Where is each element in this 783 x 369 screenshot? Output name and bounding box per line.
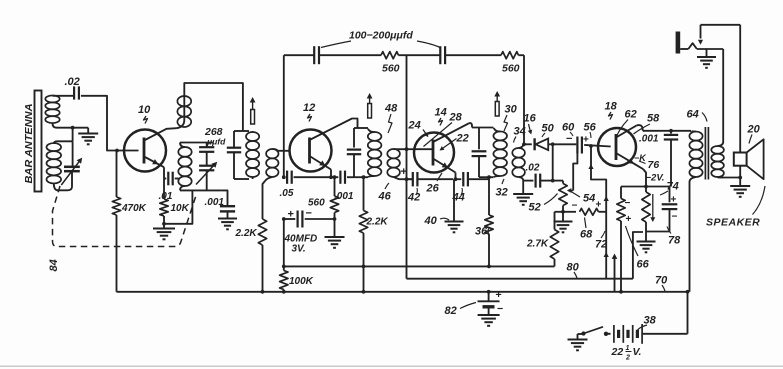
junction .05 node <box>282 175 286 179</box>
svg-text:46: 46 <box>378 191 392 203</box>
label 10K <box>171 203 190 214</box>
label 470K <box>121 203 147 214</box>
resistor 560 (emitter) <box>330 177 338 219</box>
ground phone jack <box>697 49 716 68</box>
svg-text:26: 26 <box>426 183 440 195</box>
resistor 470K <box>112 151 120 292</box>
IF1 primary winding <box>246 131 259 179</box>
wire jack to transformer <box>722 49 724 142</box>
label 2.7K <box>526 239 549 250</box>
resistor 74 <box>642 187 656 232</box>
svg-text:2: 2 <box>625 355 630 362</box>
label 268 uufd <box>204 126 226 147</box>
output transformer 64 core <box>705 127 708 180</box>
junction rail 100K <box>282 290 286 294</box>
label 560 (right rail) <box>502 63 520 75</box>
IF3 tuning slug <box>494 91 500 116</box>
label -2V. <box>646 173 665 184</box>
label 28 <box>424 112 463 147</box>
svg-text:48: 48 <box>384 103 398 115</box>
label 66 <box>626 226 650 271</box>
wire top rail drop right <box>523 55 525 144</box>
label 2.2K (IF2) <box>366 217 389 228</box>
battery 82 <box>478 292 500 315</box>
junction rail266 2.2K <box>362 265 366 269</box>
antenna coil L1 primary winding <box>45 95 59 123</box>
svg-text:2.7K: 2.7K <box>526 239 549 250</box>
svg-text:+: + <box>496 289 502 301</box>
svg-text:42: 42 <box>407 192 420 204</box>
wire osc tank bottom to C .001 <box>222 190 228 205</box>
label 20 <box>747 124 761 144</box>
ground 10K/emitter <box>153 224 175 240</box>
wire antenna coil top to C .02 <box>53 95 74 97</box>
junction IF3 sec top <box>522 142 526 146</box>
svg-text:18: 18 <box>605 101 618 113</box>
label 58 <box>634 113 661 135</box>
svg-text:84: 84 <box>48 259 60 271</box>
svg-text:.001: .001 <box>205 197 225 208</box>
base 18 feedback wire <box>588 144 608 279</box>
label 12 <box>303 102 315 122</box>
capacitor .02 (det) <box>536 174 553 188</box>
capacitor .001 (output) <box>664 129 678 149</box>
svg-text:560: 560 <box>382 63 400 75</box>
wiper feed <box>573 146 577 191</box>
ground speaker <box>730 186 750 197</box>
svg-text:.02: .02 <box>65 76 80 88</box>
svg-text:+: + <box>583 135 589 146</box>
antenna coil L1 secondary winding <box>47 128 73 191</box>
phone jack contact <box>680 43 723 49</box>
svg-text:14: 14 <box>435 107 447 119</box>
label 560 (left rail) <box>382 63 400 75</box>
transistor Q12 collector lead <box>310 119 358 141</box>
wire antenna coil bottom <box>53 123 89 128</box>
junction rail266 36 <box>487 265 491 269</box>
junction rail end <box>686 290 690 294</box>
svg-text:−2V.: −2V. <box>646 173 665 184</box>
wire mid rail 266 <box>284 265 555 267</box>
label 14 <box>435 107 447 126</box>
svg-text:52: 52 <box>529 202 541 214</box>
transistor Q14 <box>414 133 454 173</box>
label 30 <box>504 104 518 132</box>
IF3 bottom wire <box>479 176 494 178</box>
svg-text:−: − <box>625 198 631 209</box>
IF1 bottom wire <box>234 178 249 180</box>
label 24 <box>408 120 429 138</box>
label 42 <box>407 188 420 204</box>
junction antenna coil bottom <box>71 126 75 130</box>
svg-text:−: − <box>572 201 578 212</box>
label 38 <box>638 315 657 331</box>
svg-text:+: + <box>596 200 602 211</box>
svg-text:74: 74 <box>667 181 679 193</box>
IF1 tuning slug <box>250 97 256 124</box>
svg-text:+: + <box>401 166 407 178</box>
svg-text:32: 32 <box>496 187 508 199</box>
wire .001 output bottom <box>670 149 672 187</box>
junction rail battery82 <box>487 290 491 294</box>
svg-text:56: 56 <box>584 122 597 134</box>
svg-text:2.2K: 2.2K <box>366 217 389 228</box>
tuning gang dashed line 84 <box>53 186 197 247</box>
resistor 36 <box>485 177 493 266</box>
svg-text:72: 72 <box>595 239 607 251</box>
svg-text:34: 34 <box>514 126 526 138</box>
svg-text:38: 38 <box>644 315 657 327</box>
resistor 10K <box>160 199 168 224</box>
output transformer 64 primary <box>689 131 702 292</box>
label 74 <box>660 181 679 196</box>
transistor Q18 collector lead <box>616 125 691 137</box>
scan artifact <box>0 365 783 367</box>
phone jack plunger arrow <box>698 25 703 45</box>
label 54 <box>571 192 595 205</box>
label 32 <box>496 179 508 199</box>
capacitor .05 <box>284 171 339 184</box>
svg-text:.001: .001 <box>639 134 659 145</box>
capacitor .01 (emitter to osc coil) <box>164 172 179 186</box>
transistor Q12 emitter lead <box>310 156 332 177</box>
capacitor .02 <box>74 86 79 99</box>
IF1 tank capacitor <box>227 131 241 179</box>
label 22.5V <box>611 345 642 362</box>
label .001 (output) <box>639 134 659 145</box>
junction rail r66 <box>619 290 623 294</box>
transistor Q10 collector lead <box>144 128 177 140</box>
IF2 top wire <box>354 127 368 129</box>
label 18 <box>605 101 618 120</box>
label 2.2K (IF1) <box>235 228 258 239</box>
IF3 secondary winding <box>512 144 525 180</box>
label 62 <box>617 109 637 137</box>
ground 74/78 <box>637 232 656 253</box>
labels + - 82 <box>496 289 504 315</box>
transistor Q12 <box>290 130 332 172</box>
svg-text:70: 70 <box>655 275 668 287</box>
transistor Q14 collector lead <box>433 123 472 142</box>
wire IF3 sec bottom <box>523 180 533 182</box>
label 78 <box>667 227 681 247</box>
wire C .02 to transistor 10 base <box>81 96 139 151</box>
capacitor 42 <box>407 172 454 186</box>
ground battery 82 <box>478 315 500 326</box>
svg-text:60: 60 <box>562 122 575 134</box>
svg-text:22: 22 <box>611 346 624 358</box>
svg-text:78: 78 <box>668 235 681 247</box>
capacitor 100-200uufd (right) <box>440 46 445 64</box>
junction IF2 bottom <box>362 175 366 179</box>
capacitor .001 (Q12 emitter) <box>340 171 354 184</box>
electrolytic 78 <box>646 187 677 232</box>
svg-text:76: 76 <box>648 159 660 171</box>
IF3 primary winding <box>493 128 507 177</box>
svg-text:54: 54 <box>583 193 595 205</box>
ground pot 52 <box>554 212 573 233</box>
junction base 14 bias <box>405 147 409 151</box>
svg-text:30: 30 <box>505 104 518 116</box>
junction Q14 cap42 node <box>405 177 409 181</box>
junction rail 2.2K-2 <box>362 290 366 294</box>
IF2 primary winding <box>368 129 382 178</box>
label 76 <box>639 159 659 171</box>
transistor Q14 emitter lead <box>433 159 456 180</box>
label SPEAKER <box>706 186 765 229</box>
ground IF3 secondary <box>513 181 533 205</box>
svg-text:470K: 470K <box>121 203 147 214</box>
wire osc tank return <box>162 190 192 225</box>
label 84 <box>48 259 60 271</box>
svg-text:40: 40 <box>424 215 438 227</box>
labels + - 40MFD <box>288 208 312 221</box>
labels + - 78 <box>671 195 678 223</box>
label 40MFD 3V <box>284 234 318 255</box>
wire base Q14 <box>414 148 433 150</box>
wire emitter node <box>621 186 670 188</box>
svg-text:62: 62 <box>625 109 637 121</box>
svg-text:560: 560 <box>502 63 520 75</box>
label 64 <box>687 109 708 122</box>
resistor 560 (left rail) <box>381 52 399 59</box>
IF2 bottom wire <box>354 176 368 178</box>
resistor 2.2K (IF1) <box>258 181 266 292</box>
wire speaker to ground <box>738 166 742 186</box>
label 52 <box>529 194 558 214</box>
svg-text:16: 16 <box>524 113 537 125</box>
switch lever <box>581 327 603 336</box>
resistor 100K <box>280 266 288 291</box>
label 72 <box>595 231 607 251</box>
wire battery to rail <box>642 292 687 334</box>
svg-text:3V.: 3V. <box>292 244 306 255</box>
junction rail 2.2K-1 <box>261 290 265 294</box>
transistor Q10 <box>124 130 166 172</box>
label 36 <box>475 226 489 238</box>
label 60 <box>562 122 575 137</box>
svg-text:68: 68 <box>580 229 593 241</box>
label .001 (Q12) <box>334 191 354 202</box>
junction emitter 18 node <box>644 185 648 189</box>
ground .001 osc <box>218 211 237 229</box>
wire speaker drop <box>739 25 741 153</box>
diode 50 <box>535 138 551 150</box>
junction base Q10 / 470K <box>115 149 119 153</box>
resistor 66 <box>617 187 625 292</box>
transistor Q18 emitter lead <box>616 153 646 187</box>
label 22 <box>440 133 469 151</box>
junction pot bottom <box>561 210 565 214</box>
junction IF3 bottom <box>487 175 491 179</box>
wire jack top <box>701 24 741 26</box>
svg-text:50: 50 <box>542 123 555 135</box>
svg-text:12: 12 <box>303 102 315 114</box>
svg-text:1: 1 <box>626 345 630 352</box>
svg-text:28: 28 <box>449 112 463 124</box>
svg-text:10: 10 <box>138 104 151 116</box>
capacitor 268 uufd variable section <box>196 162 217 191</box>
label .05 <box>280 188 294 199</box>
IF3 top wire <box>472 127 494 129</box>
svg-text:22: 22 <box>456 133 469 145</box>
svg-text:82: 82 <box>445 305 457 317</box>
signal flow arrow (AGC) <box>612 254 618 292</box>
svg-text:−: − <box>306 208 312 220</box>
resistor 2.2K (IF2) <box>359 177 367 292</box>
wire rail 279 <box>407 232 644 279</box>
svg-text:+: + <box>671 195 677 206</box>
label .01 <box>159 191 173 202</box>
wire detector node <box>551 143 577 145</box>
svg-text:58: 58 <box>647 113 660 125</box>
label 16 <box>524 113 537 135</box>
junction emitter 14 <box>454 177 458 181</box>
svg-text:20: 20 <box>747 124 761 136</box>
svg-text:64: 64 <box>687 109 699 121</box>
wire top rail drop middle <box>406 55 408 279</box>
resistor 68 <box>563 208 606 215</box>
svg-text:μμfd: μμfd <box>206 137 226 147</box>
capacitor 100-200uufd (left) <box>314 46 319 64</box>
label -K <box>634 153 647 163</box>
label + (IF2 sec) <box>401 166 407 178</box>
volume control 52 <box>553 181 574 212</box>
capacitor 268 uufd fixed section <box>199 143 214 166</box>
label BAR ANTENNA <box>24 104 35 184</box>
capacitor 44 <box>456 172 490 186</box>
label .001 (osc) <box>205 197 225 208</box>
wire drop to 266 rail <box>283 219 285 266</box>
switch contact <box>604 332 611 336</box>
svg-text:100K: 100K <box>289 276 314 287</box>
svg-text:.05: .05 <box>280 188 294 199</box>
junction det lower <box>551 179 555 183</box>
label 100K <box>289 276 314 287</box>
IF2 tuning slug <box>367 93 373 118</box>
svg-text:24: 24 <box>408 120 421 132</box>
label 80 <box>567 262 580 279</box>
label 50 <box>542 123 555 138</box>
label 56 <box>584 122 597 139</box>
label 82 <box>445 303 477 318</box>
ground antenna coil <box>78 128 98 145</box>
label 68 <box>580 218 593 241</box>
labels - + 68 <box>572 200 602 212</box>
bar antenna ferrite bar <box>35 91 42 192</box>
label 40 <box>424 215 450 227</box>
IF1 secondary winding <box>265 149 290 181</box>
junction detector <box>551 142 555 146</box>
battery 38 cells <box>614 324 642 344</box>
wire bottom rail <box>117 291 688 293</box>
capacitor .001 (osc) <box>220 206 235 211</box>
IF2 secondary winding <box>387 149 414 179</box>
labels - + 60 <box>566 133 589 146</box>
ground 40 <box>445 222 464 233</box>
junction 40MFD node <box>282 217 337 221</box>
svg-text:2.2K: 2.2K <box>235 228 258 239</box>
svg-text:80: 80 <box>567 262 580 274</box>
svg-text:66: 66 <box>637 259 650 271</box>
junction 100K top <box>282 265 286 269</box>
electrolytic 40MFD <box>284 211 335 228</box>
svg-text:V.: V. <box>633 346 642 358</box>
ground switch <box>568 334 588 350</box>
wire oscillator top loop <box>184 83 243 131</box>
junction Q12 emitter node <box>329 175 336 179</box>
svg-text:.02: .02 <box>526 163 540 174</box>
transistor Q18 <box>598 128 636 166</box>
label 26 <box>426 173 443 195</box>
ground 560/40MFD <box>325 219 345 248</box>
IF3 tank capacitor <box>472 128 487 178</box>
svg-text:36: 36 <box>475 226 488 238</box>
label .02 (det) <box>526 163 540 174</box>
label 100-200uufd <box>321 30 440 48</box>
svg-text:−: − <box>497 303 503 315</box>
wire top rail <box>284 54 524 56</box>
resistor 560 (right rail) <box>501 52 519 59</box>
wire detector down <box>552 144 554 180</box>
label 34 <box>514 126 526 143</box>
label 46 <box>378 183 392 203</box>
label 560 (emitter) <box>308 198 325 209</box>
wire emitter 14 to ground 40 <box>453 179 455 221</box>
label 70 <box>655 275 668 292</box>
IF2 tank capacitor <box>347 128 361 177</box>
svg-text:−: − <box>672 212 678 223</box>
electrolytic 60 <box>575 137 611 154</box>
phone jack tip <box>676 32 681 54</box>
variable capacitor tuning (antenna) <box>61 141 82 185</box>
svg-text:+: + <box>288 209 294 221</box>
svg-text:SPEAKER: SPEAKER <box>706 217 760 229</box>
label 44 <box>452 188 465 204</box>
svg-text:10K: 10K <box>171 203 190 214</box>
output transformer 64 secondary <box>711 142 740 178</box>
svg-text:−: − <box>566 133 572 145</box>
transistor Q10 emitter lead <box>144 157 164 200</box>
oscillator tuned winding <box>178 143 221 191</box>
svg-text:BAR ANTENNA: BAR ANTENNA <box>24 104 35 184</box>
IF1 top wire <box>234 130 249 132</box>
resistor 2.7K <box>550 212 563 267</box>
labels - + 66 <box>625 198 632 225</box>
svg-text:+: + <box>626 214 632 225</box>
label 48 <box>384 103 398 134</box>
wire IF3 sec top <box>523 143 532 145</box>
label .02 <box>65 76 80 88</box>
oscillator feedback coil <box>177 96 192 128</box>
svg-text:100−200μμfd: 100−200μμfd <box>349 30 413 42</box>
wire top rail drop left <box>283 55 285 177</box>
speaker 20 <box>734 139 764 179</box>
label 10 <box>138 104 151 124</box>
